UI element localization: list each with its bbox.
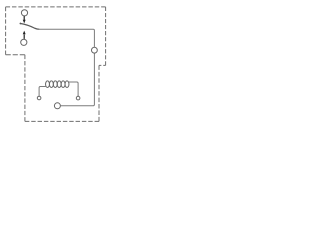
coil lead left wire: [39, 87, 46, 96]
wire: bottom horizontal to COM terminal: [61, 105, 94, 107]
terminal NO contact (lower circle): [21, 39, 27, 45]
wire: right vertical lower segment: [93, 54, 94, 106]
pin on right wire (open circle terminal): [92, 47, 98, 53]
coil lead right wire: [69, 82, 79, 96]
relay module outline (dashed boundary): [6, 7, 106, 122]
coil pin left (open circle): [37, 96, 41, 100]
coil pin right (open circle): [76, 96, 80, 100]
relay coil winding (6 loops): [46, 81, 69, 88]
switch blade tip pad: [20, 23, 22, 25]
arrow up (lower contact actuation arrow): [23, 31, 26, 39]
switch blade (movable lever): [20, 23, 39, 29]
terminal NC contact (upper circle): [21, 10, 27, 16]
arrow down (upper contact actuation arrow): [23, 16, 26, 23]
terminal COM (bottom open circle): [54, 103, 60, 109]
wire: common top horizontal: [38, 29, 94, 47]
